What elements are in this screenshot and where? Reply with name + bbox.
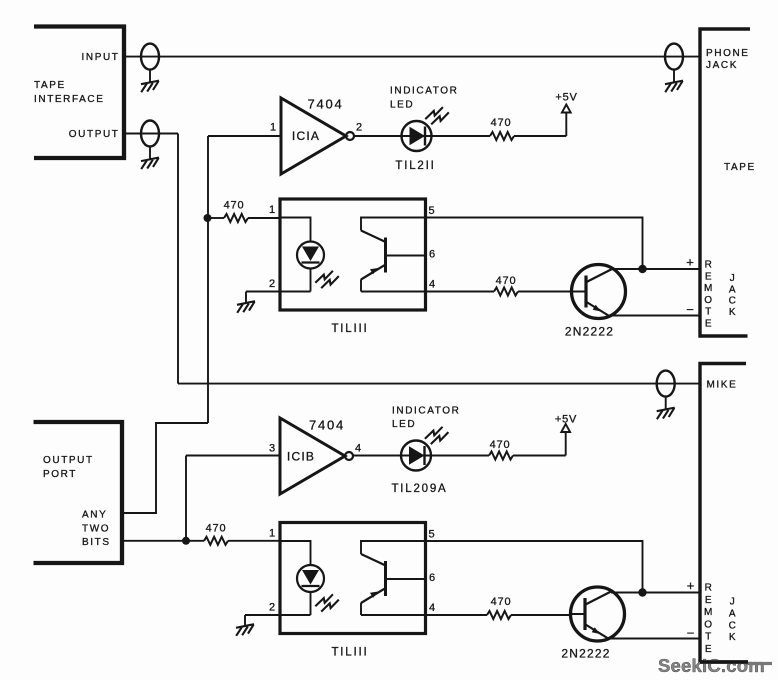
svg-text:INTERFACE: INTERFACE (34, 94, 105, 105)
svg-text:OUTPUT: OUTPUT (69, 129, 120, 140)
svg-text:2: 2 (356, 122, 363, 134)
svg-text:PORT: PORT (43, 469, 77, 480)
resistor R4 470 (204, 537, 228, 545)
resistor R6 470 (487, 611, 511, 619)
jack output connector with ground (141, 121, 159, 170)
LED TIL211 indicator (402, 121, 432, 151)
power +5V bottom (561, 424, 570, 456)
wire input line to phone jack (124, 56, 700, 58)
wire opto pin2 to ground (246, 292, 280, 303)
svg-text:INPUT: INPUT (82, 52, 120, 63)
svg-text:REMOTE: REMOTE (704, 583, 714, 656)
svg-text:PHONE: PHONE (706, 48, 750, 59)
svg-text:ANY: ANY (82, 510, 107, 521)
svg-text:TAPE: TAPE (724, 162, 756, 173)
wire R6 to transistor base (511, 614, 571, 616)
svg-text:ICIB: ICIB (287, 450, 315, 464)
svg-text:1: 1 (270, 122, 277, 134)
svg-text:470: 470 (490, 439, 511, 451)
svg-text:REMOTE: REMOTE (704, 260, 714, 330)
watermark strike line (746, 662, 772, 665)
wire opto2 pin2 to ground (245, 615, 280, 626)
svg-text:JACK: JACK (729, 597, 738, 644)
tape interface box (34, 27, 124, 159)
wire LED to resistor R2 (432, 135, 491, 137)
jack mike connector with ground (657, 371, 675, 420)
light rays TIL211 (425, 107, 449, 124)
wire to resistor R1 (208, 217, 224, 219)
node collector junction bottom (638, 588, 646, 596)
svg-text:+: + (687, 578, 696, 593)
light rays TIL209A (425, 427, 449, 444)
wire bit2 vertical (185, 456, 187, 542)
svg-text:TIL2II: TIL2II (395, 160, 435, 172)
svg-text:JACK: JACK (729, 273, 738, 318)
wire LED to resistor R5 (431, 455, 489, 457)
svg-text:LED: LED (392, 419, 416, 430)
svg-text:470: 470 (224, 200, 245, 212)
wire output segment (124, 133, 178, 135)
svg-text:+: + (686, 255, 695, 270)
node junction bit1 (204, 214, 212, 222)
svg-text:−: − (686, 302, 695, 317)
optocoupler U3 TIL111 bottom (269, 523, 436, 659)
svg-text:7404: 7404 (309, 418, 345, 433)
wire bit1 jog to output port (122, 423, 208, 513)
jack input connector with ground (141, 44, 159, 93)
wire opto2 pin4 to resistor R6 (426, 614, 487, 616)
wire R2 to +5V (514, 135, 566, 137)
wire IC1A input (208, 135, 281, 137)
svg-text:TIL209A: TIL209A (391, 483, 447, 495)
wire IC1B input (186, 455, 280, 457)
optocoupler U2 TIL111 top (269, 199, 436, 335)
node junction bit2 (182, 537, 190, 545)
svg-text:−: − (687, 626, 696, 641)
wire opto pin5 to transistor collector node (426, 218, 643, 270)
svg-text:MIKE: MIKE (707, 380, 738, 391)
svg-text:4: 4 (355, 443, 362, 455)
recorder bracket tape section (700, 29, 750, 336)
resistor R1 470 (224, 214, 248, 222)
wire Q1 emitter to - terminal (611, 315, 700, 317)
wire R4 to opto pin1 (228, 540, 280, 542)
wire R5 to +5V (513, 455, 566, 457)
svg-text:TAPE: TAPE (34, 80, 66, 91)
jack phone connector with ground (665, 44, 683, 93)
wire opto pin4 to resistor R3 (426, 291, 495, 293)
wire Q1 collector to + terminal (612, 268, 700, 270)
op-amp inverter IC1A 7404 (281, 98, 354, 174)
svg-text:470: 470 (206, 523, 227, 535)
svg-text:+5V: +5V (555, 92, 577, 104)
svg-text:TWO: TWO (82, 524, 110, 535)
svg-text:OUTPUT: OUTPUT (43, 455, 94, 466)
node collector junction top (638, 265, 646, 273)
svg-text:+5V: +5V (555, 414, 577, 426)
wire recorder bracket bottom bar overlap (700, 660, 748, 663)
svg-text:2N2222: 2N2222 (565, 325, 614, 339)
svg-text:470: 470 (491, 596, 512, 608)
op-amp inverter IC1B 7404 (280, 418, 353, 494)
wire R1 to opto pin1 (248, 217, 281, 219)
resistor R5 470 (489, 452, 513, 460)
wire IC1B output to LED (353, 455, 401, 457)
recorder bracket mike section (700, 364, 748, 663)
output port box (34, 422, 123, 563)
resistor R3 470 (494, 288, 518, 296)
power +5V top (562, 105, 571, 137)
transistor Q2 2N2222 (571, 587, 625, 641)
svg-text:SeekIC.com: SeekIC.com (658, 655, 765, 676)
svg-text:BITS: BITS (82, 537, 111, 548)
wire bit1 vertical (207, 136, 209, 423)
wire Q2 emitter to - terminal (610, 638, 700, 640)
wire bits line from output port (122, 540, 204, 542)
svg-text:7404: 7404 (307, 97, 343, 112)
wire output vertical down (177, 134, 179, 384)
svg-text:LED: LED (390, 100, 414, 111)
wire R3 to transistor base (518, 291, 572, 293)
svg-text:INDICATOR: INDICATOR (390, 86, 458, 97)
svg-text:INDICATOR: INDICATOR (392, 405, 460, 416)
svg-text:3: 3 (269, 443, 276, 455)
wire IC1A output to LED (354, 135, 402, 137)
svg-text:470: 470 (491, 117, 512, 129)
svg-text:2N2222: 2N2222 (561, 647, 610, 661)
wire mike line (178, 383, 700, 385)
svg-text:ICIA: ICIA (292, 129, 320, 143)
ground opto bottom (236, 624, 254, 636)
transistor Q1 2N2222 (572, 265, 626, 319)
svg-text:470: 470 (496, 275, 517, 287)
wire opto2 pin5 to transistor collector node (426, 541, 643, 593)
LED TIL209A indicator (401, 441, 431, 471)
ground opto top (237, 301, 255, 313)
resistor R2 470 (490, 132, 514, 140)
wire Q2 collector to + terminal (611, 592, 700, 594)
svg-text:JACK: JACK (706, 60, 738, 71)
